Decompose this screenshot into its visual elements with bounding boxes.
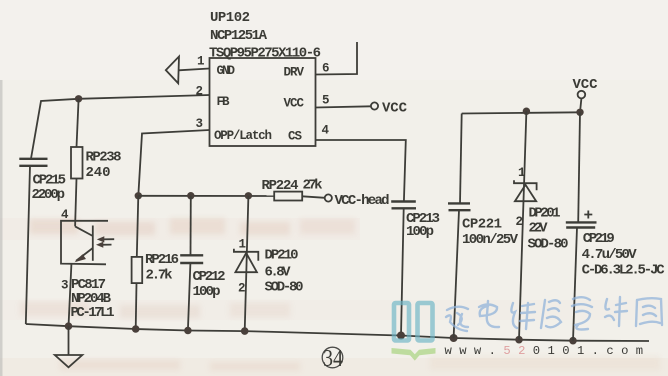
wire CP219 to ground rail <box>573 228 577 341</box>
watermark book logo right page <box>418 303 433 341</box>
svg-text:4: 4 <box>61 208 69 222</box>
svg-text:SOD-80: SOD-80 <box>528 236 569 252</box>
wire pin6 DRV up <box>316 42 358 75</box>
svg-text:C-D6.3L2.5-JC: C-D6.3L2.5-JC <box>582 263 666 279</box>
wire VCC horizontal rail <box>462 112 580 113</box>
capacitor CP212 plates <box>180 255 203 263</box>
node junction rail CP213 <box>397 332 405 340</box>
svg-text:6.8V: 6.8V <box>265 264 292 280</box>
wire VCC terminal down <box>580 98 581 112</box>
svg-text:100n/25V: 100n/25V <box>462 232 519 248</box>
svg-text:2200p: 2200p <box>32 187 66 203</box>
svg-text:34: 34 <box>323 346 343 372</box>
ground stem <box>68 326 70 354</box>
zener diode DP210 cathode bar <box>234 249 258 261</box>
node junction rail CP212 <box>184 327 192 335</box>
svg-text:1: 1 <box>239 238 247 252</box>
node junction rail DP201 <box>515 336 523 344</box>
svg-text:FB: FB <box>217 95 230 109</box>
svg-text:CP221: CP221 <box>462 216 502 232</box>
node junction rail CP221 <box>450 334 458 342</box>
svg-text:CS: CS <box>288 130 302 144</box>
resistor RP238 body <box>71 147 83 179</box>
svg-text:2: 2 <box>516 215 524 229</box>
svg-text:NCP1251A: NCP1251A <box>210 28 268 44</box>
resistor RP224 body <box>274 192 302 201</box>
node junction rail RP216 <box>132 325 140 333</box>
node junction rail DP210 <box>241 327 249 335</box>
watermark chinese character 7 <box>636 298 662 326</box>
optocoupler PC817 base bar <box>92 226 94 261</box>
svg-text:DP201: DP201 <box>529 205 561 221</box>
svg-text:2: 2 <box>238 282 246 296</box>
capacitor CP219 polarity plus <box>584 211 592 219</box>
wire pin1 to arrow <box>179 69 210 71</box>
svg-text:DP210: DP210 <box>265 247 299 263</box>
capacitor CP219 plates <box>566 222 597 227</box>
node junction CP212 top <box>187 192 194 199</box>
watermark book logo left page <box>394 303 409 341</box>
watermark chinese character 4 <box>541 300 561 328</box>
node junction rail PC817 <box>65 322 73 330</box>
svg-text:6: 6 <box>322 62 330 76</box>
wire junction down to DP210 <box>245 196 249 331</box>
svg-text:100p: 100p <box>193 284 221 300</box>
svg-text:2.7k: 2.7k <box>146 267 173 283</box>
svg-text:PC-17L1: PC-17L1 <box>71 305 115 321</box>
node junction VCC/DP201 <box>523 108 530 115</box>
svg-text:UP102: UP102 <box>210 10 250 26</box>
optocoupler PC817 phototransistor collector <box>75 226 93 236</box>
wire CP221 branch down <box>460 114 462 204</box>
page bleed-through ghost band <box>20 218 660 371</box>
capacitor CP221 plates <box>448 203 471 210</box>
svg-text:RP216: RP216 <box>145 252 179 268</box>
ground arrow symbol on pin 1 <box>166 57 179 84</box>
wire pin3 OPP/Latch to left and down <box>138 130 209 196</box>
wire junction to RP238 <box>77 99 79 147</box>
svg-text:1: 1 <box>197 55 205 69</box>
svg-text:CP219: CP219 <box>583 231 615 247</box>
watermark chinese character 5 <box>572 297 592 329</box>
wire RP224 to VCC-head terminal <box>302 196 325 198</box>
watermark chinese character 1 <box>446 307 468 331</box>
svg-text:VCC: VCC <box>573 77 599 93</box>
wire junction down to RP216 <box>137 196 139 257</box>
svg-text:1: 1 <box>518 166 526 180</box>
svg-text:5: 5 <box>322 94 330 108</box>
svg-text:100p: 100p <box>406 224 434 240</box>
svg-text:2: 2 <box>196 85 204 99</box>
wire RP216 to ground rail <box>135 283 138 329</box>
capacitor CP213 plates <box>391 202 416 209</box>
svg-text:22V: 22V <box>529 221 549 237</box>
wire CP212 to ground rail <box>188 263 191 331</box>
svg-text:GND: GND <box>217 64 236 78</box>
zener diode DP210 triangle <box>235 253 257 272</box>
node junction OPP/VCC-head <box>135 192 142 199</box>
optocoupler PC817 emitter with arrow <box>76 248 93 261</box>
VCC terminal circle at pin 5 <box>371 102 378 109</box>
ground symbol triangle <box>55 355 83 367</box>
node junction rail CP219 <box>569 337 577 345</box>
optocoupler PC817 light arrow upper <box>100 238 114 240</box>
watermark green ribbon <box>392 348 436 361</box>
wire FB net from IC to left <box>31 95 210 159</box>
svg-text:RP238: RP238 <box>86 150 122 166</box>
svg-text:27k: 27k <box>303 178 323 194</box>
svg-text:CP212: CP212 <box>193 269 226 285</box>
wire pin4 CS to right corner <box>316 140 406 202</box>
wire CP215 down to ground rail <box>26 166 30 324</box>
svg-text:3: 3 <box>196 117 204 131</box>
svg-text:OPP/Latch: OPP/Latch <box>214 129 272 143</box>
node VCC-head terminal circle <box>325 194 332 201</box>
zener diode DP201 triangle <box>515 185 536 201</box>
node junction DP210 top <box>245 192 252 199</box>
resistor RP216 body <box>132 257 143 283</box>
svg-text:240: 240 <box>86 165 111 181</box>
optocoupler PC817 light arrow lower <box>99 244 112 246</box>
node junction VCC/CP219 <box>576 109 583 116</box>
svg-text:4.7u/50V: 4.7u/50V <box>582 247 638 263</box>
watermark chinese character 2 <box>479 301 499 327</box>
wire RP238 to optocoupler pin 4 <box>75 179 76 227</box>
svg-text:VCC-head: VCC-head <box>335 193 390 209</box>
wire CP213 down to ground rail <box>401 208 404 335</box>
figure number circle 34 <box>322 347 343 368</box>
wire DP201 branch down <box>519 111 526 340</box>
svg-text:RP224: RP224 <box>262 178 299 194</box>
node junction FB/RP238 <box>75 95 82 102</box>
svg-text:3: 3 <box>61 279 69 293</box>
svg-text:VCC: VCC <box>284 97 305 111</box>
svg-text:TSQP95P275X110-6: TSQP95P275X110-6 <box>209 46 321 62</box>
svg-text:SOD-80: SOD-80 <box>265 280 304 296</box>
watermark chinese character 6 <box>605 297 627 326</box>
svg-text:www.520101.com: www.520101.com <box>445 344 651 358</box>
wire junction down to CP212 <box>190 196 192 256</box>
VCC supply terminal circle top right <box>578 91 586 99</box>
wire CP219 branch down <box>578 112 580 222</box>
ground rail bottom bus <box>26 324 649 341</box>
IC UP102 body <box>210 58 316 146</box>
zener diode DP201 cathode bar <box>514 180 537 190</box>
wire pin5 to VCC terminal <box>316 106 371 107</box>
wire PC817 emitter to ground rail <box>69 264 72 326</box>
capacitor CP215 plates <box>19 159 47 166</box>
svg-text:4: 4 <box>322 124 330 138</box>
svg-text:VCC: VCC <box>382 101 408 117</box>
svg-text:DRV: DRV <box>284 66 305 80</box>
optocoupler PC817 box <box>61 221 108 264</box>
wire VCC-head horizontal <box>138 195 274 197</box>
wire CP221 to ground rail <box>454 210 459 338</box>
watermark chinese character 3 <box>511 303 535 329</box>
